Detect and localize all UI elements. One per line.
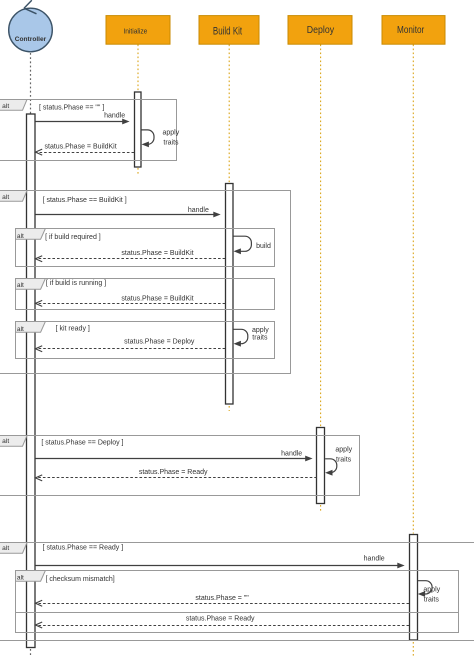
svg-text:[ status.Phase == BuildKit ]: [ status.Phase == BuildKit ] <box>43 197 127 204</box>
svg-text:alt: alt <box>17 575 24 582</box>
svg-text:[ status.Phase == Deploy ]: [ status.Phase == Deploy ] <box>41 440 123 447</box>
svg-text:status.Phase = BuildKit: status.Phase = BuildKit <box>45 143 117 150</box>
svg-text:Monitor: Monitor <box>397 24 424 35</box>
svg-text:alt: alt <box>17 326 24 333</box>
svg-text:Deploy: Deploy <box>307 23 335 35</box>
svg-text:alt: alt <box>2 194 9 201</box>
svg-text:status.Phase = Ready: status.Phase = Ready <box>139 469 208 476</box>
svg-text:alt: alt <box>2 438 9 445</box>
svg-text:[ checksum mismatch]: [ checksum mismatch] <box>46 576 115 583</box>
svg-text:alt: alt <box>17 233 24 240</box>
svg-text:handle: handle <box>188 207 209 214</box>
svg-text:status.Phase = Ready: status.Phase = Ready <box>186 615 255 622</box>
svg-text:status.Phase = BuildKit: status.Phase = BuildKit <box>121 295 193 302</box>
svg-text:Initialize: Initialize <box>123 28 147 35</box>
svg-text:alt: alt <box>17 282 24 289</box>
svg-text:status.Phase = BuildKit: status.Phase = BuildKit <box>121 250 193 257</box>
svg-text:[ if build is running ]: [ if build is running ] <box>46 280 106 287</box>
svg-text:Build Kit: Build Kit <box>213 25 242 38</box>
svg-text:traits: traits <box>336 456 352 463</box>
svg-text:[ status.Phase == "" ]: [ status.Phase == "" ] <box>39 104 104 111</box>
svg-text:apply: apply <box>252 327 269 334</box>
svg-text:apply: apply <box>335 447 352 454</box>
svg-text:handle: handle <box>281 450 302 457</box>
svg-text:Controller: Controller <box>15 36 47 43</box>
svg-text:traits: traits <box>252 334 268 341</box>
svg-text:handle: handle <box>364 555 385 562</box>
svg-text:[ kit ready ]: [ kit ready ] <box>56 326 90 333</box>
svg-text:handle: handle <box>104 112 125 119</box>
svg-text:[ if build required ]: [ if build required ] <box>45 234 101 241</box>
svg-text:traits: traits <box>163 140 179 147</box>
svg-text:traits: traits <box>424 597 440 604</box>
svg-text:status.Phase = "": status.Phase = "" <box>195 595 249 602</box>
svg-text:alt: alt <box>2 103 9 110</box>
svg-text:apply: apply <box>163 129 180 136</box>
svg-text:apply: apply <box>423 586 440 593</box>
svg-text:alt: alt <box>2 545 9 552</box>
svg-text:[ status.Phase == Ready ]: [ status.Phase == Ready ] <box>43 544 124 551</box>
svg-text:status.Phase = Deploy: status.Phase = Deploy <box>124 339 195 346</box>
svg-text:build: build <box>256 243 271 250</box>
